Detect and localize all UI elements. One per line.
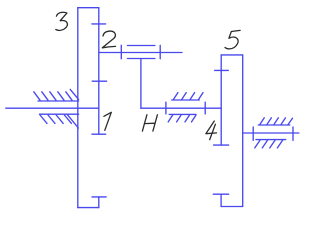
ring gear 5 top cap: [221, 54, 243, 56]
label H: [142, 115, 157, 131]
H bearing lower line: [169, 113, 196, 115]
ring gear 3 top cap: [78, 7, 99, 9]
ring gear 5 bottom flange: [220, 194, 222, 206]
ring gear 3 bottom flange: [98, 197, 100, 208]
ring gear 3 top tooth tick / planet 2 mesh: [92, 23, 106, 25]
ring gear 5 bottom tooth tick: [213, 193, 228, 195]
input support lower line: [40, 113, 79, 115]
H bearing upper hatches: [173, 93, 203, 100]
input shaft 1: [6, 107, 99, 109]
input support lower hatches: [40, 115, 78, 128]
H bearing right tick: [204, 102, 206, 114]
output bearing right tick: [292, 127, 294, 140]
gear 4 bottom tick: [214, 144, 229, 146]
planet axle right bearing tick: [159, 45, 161, 59]
gear 4 top tick / ring 5 mesh: [215, 69, 229, 71]
output bearing left tick: [252, 127, 254, 140]
ring gear 3 left rim: [77, 8, 79, 208]
ring gear 3 bottom cap: [78, 207, 99, 209]
ring gear 5 right rim: [242, 55, 244, 207]
carrier yoke bottom: [127, 58, 154, 60]
sun gear 1 bottom tick: [92, 133, 106, 135]
ring gear 5 bottom cap: [221, 206, 243, 208]
carrier H stem: [140, 59, 142, 109]
output bearing upper hatches: [260, 118, 293, 125]
output bearing lower hatches: [255, 140, 283, 148]
input support upper line: [38, 100, 79, 102]
H bearing upper line: [172, 99, 200, 101]
output shaft: [243, 132, 299, 134]
planet gear 2 and sun gear 1 line: [98, 8, 100, 135]
carrier H shaft: [141, 107, 221, 109]
label 1: [104, 112, 111, 130]
label 2: [102, 31, 115, 48]
mesh tick sun 1 / planet 2: [92, 80, 106, 82]
label 5: [225, 30, 240, 49]
ring gear 3 bottom tooth tick: [92, 196, 106, 198]
planet axle left bearing tick: [120, 45, 122, 59]
input support upper hatches: [34, 89, 79, 100]
output bearing upper line: [258, 124, 290, 126]
label 4: [206, 121, 217, 140]
carrier planet axle: [99, 52, 182, 54]
carrier yoke top: [127, 45, 154, 47]
label 3: [56, 12, 68, 30]
output bearing lower line: [256, 139, 286, 141]
H bearing left tick: [165, 102, 167, 114]
gear 4 line: [220, 55, 222, 145]
H bearing lower hatches: [168, 115, 196, 122]
